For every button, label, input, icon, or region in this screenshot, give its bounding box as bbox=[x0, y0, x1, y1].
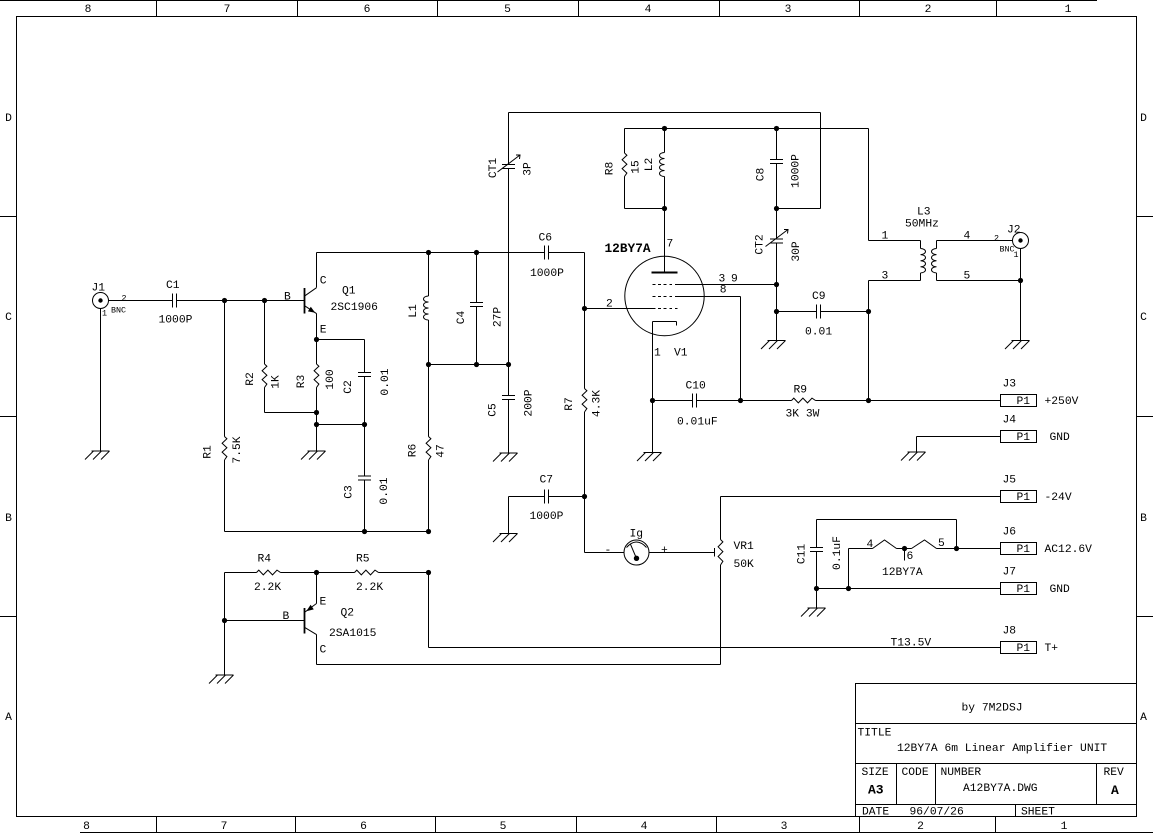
svg-text:GND: GND bbox=[1050, 432, 1071, 444]
resistor R2 1K bbox=[264, 301, 266, 365]
svg-text:1: 1 bbox=[654, 348, 661, 360]
svg-text:200P: 200P bbox=[523, 389, 535, 416]
resistor R3 100 bbox=[316, 340, 318, 365]
wire heater left to gnd rail bbox=[848, 549, 850, 589]
border outer frame bbox=[0, 0, 1097, 2]
svg-text:1: 1 bbox=[1014, 250, 1019, 260]
svg-text:P1: P1 bbox=[1017, 544, 1031, 556]
svg-text:+250V: +250V bbox=[1045, 396, 1079, 408]
svg-text:C10: C10 bbox=[686, 381, 707, 393]
svg-text:P1: P1 bbox=[1017, 492, 1031, 504]
svg-text:AC12.6V: AC12.6V bbox=[1045, 544, 1093, 556]
capacitor C11 0.1uF bbox=[816, 520, 818, 548]
svg-text:1000P: 1000P bbox=[530, 511, 564, 523]
ground under J1 bbox=[92, 450, 110, 452]
ground under C5 bbox=[500, 452, 518, 454]
svg-text:Ig: Ig bbox=[630, 529, 644, 541]
svg-text:CODE: CODE bbox=[902, 767, 929, 779]
transistor Q1 2SC1906 bbox=[304, 288, 306, 314]
svg-text:CT2: CT2 bbox=[754, 234, 766, 254]
svg-text:3K 3W: 3K 3W bbox=[786, 409, 820, 421]
capacitor C5 200P bbox=[508, 365, 510, 396]
tube control grid dashes bbox=[653, 308, 679, 310]
connector J5 -24V bbox=[1001, 491, 1037, 503]
svg-text:B: B bbox=[5, 513, 12, 525]
svg-text:C5: C5 bbox=[487, 403, 499, 417]
resistor R9 3K 3W bbox=[792, 398, 816, 403]
wire C7 to ground bbox=[508, 497, 510, 534]
connector J4 GND bbox=[917, 436, 1001, 438]
connector J1 BNC bbox=[93, 293, 109, 309]
ground under C7 bbox=[500, 533, 518, 535]
svg-text:1K: 1K bbox=[270, 375, 282, 389]
border column ticks bottom bbox=[156, 817, 158, 833]
svg-text:3: 3 bbox=[781, 821, 788, 833]
svg-text:12BY7A: 12BY7A bbox=[882, 567, 923, 579]
svg-text:4: 4 bbox=[867, 539, 874, 551]
connector J3 +250V bbox=[1001, 395, 1037, 407]
wire Q2 base bbox=[225, 620, 305, 622]
svg-text:D: D bbox=[1140, 113, 1147, 125]
svg-text:8: 8 bbox=[83, 821, 90, 833]
tube cathode bbox=[653, 321, 677, 323]
border row ticks left bbox=[0, 216, 17, 218]
wire R2 bottom to R3 node bbox=[265, 412, 317, 414]
svg-text:96/07/26: 96/07/26 bbox=[910, 807, 964, 819]
svg-text:J8: J8 bbox=[1003, 626, 1017, 638]
svg-text:47: 47 bbox=[435, 444, 447, 458]
tube V1 12BY7A envelope bbox=[625, 256, 704, 335]
wire J2 ground lead bbox=[1020, 249, 1022, 341]
svg-text:0.01: 0.01 bbox=[380, 368, 392, 395]
svg-text:27P: 27P bbox=[492, 307, 504, 328]
svg-text:5: 5 bbox=[504, 4, 511, 16]
ground under J4 bbox=[908, 451, 926, 453]
svg-text:A: A bbox=[1111, 783, 1119, 798]
svg-text:2SC1906: 2SC1906 bbox=[331, 302, 379, 314]
node R3 bottom dots bbox=[314, 410, 319, 415]
svg-text:A12BY7A.DWG: A12BY7A.DWG bbox=[963, 783, 1038, 795]
wire J1 to C1 bbox=[109, 300, 173, 302]
svg-text:R9: R9 bbox=[794, 385, 808, 397]
svg-text:0.01: 0.01 bbox=[805, 327, 832, 339]
capacitor C4 27P bbox=[476, 253, 478, 303]
resistor R5 2.2K bbox=[317, 572, 355, 574]
svg-text:NUMBER: NUMBER bbox=[941, 767, 982, 779]
svg-text:1000P: 1000P bbox=[159, 315, 193, 327]
svg-text:P1: P1 bbox=[1017, 643, 1031, 655]
capacitor C10 0.01uF bbox=[692, 394, 694, 408]
wire grid node to tube pin 2 bbox=[585, 308, 653, 310]
svg-text:2.2K: 2.2K bbox=[356, 582, 383, 594]
svg-text:5: 5 bbox=[938, 538, 945, 550]
tube screen grid pins 3 9 bbox=[653, 284, 677, 286]
svg-text:1: 1 bbox=[102, 309, 107, 319]
connector J2 BNC bbox=[1013, 233, 1029, 249]
resistor R1 7.5K bbox=[224, 301, 226, 437]
capacitor C7 1000P bbox=[509, 496, 545, 498]
svg-text:A3: A3 bbox=[868, 783, 884, 798]
resistor R4 2.2K bbox=[225, 572, 257, 574]
ground under R3 bbox=[308, 450, 326, 452]
ground under J2 bbox=[1012, 340, 1030, 342]
svg-text:C2: C2 bbox=[343, 380, 355, 394]
svg-text:V1: V1 bbox=[674, 348, 688, 360]
svg-text:A: A bbox=[5, 712, 12, 724]
node grid junction bbox=[582, 306, 587, 311]
svg-text:SHEET: SHEET bbox=[1021, 807, 1055, 819]
svg-text:TITLE: TITLE bbox=[858, 728, 892, 740]
resistor R8 15 bbox=[624, 129, 626, 154]
svg-text:-24V: -24V bbox=[1045, 492, 1072, 504]
svg-text:C8: C8 bbox=[755, 168, 767, 182]
wire meter to VR1 wiper bbox=[649, 552, 715, 554]
svg-text:R1: R1 bbox=[202, 445, 214, 459]
svg-text:0.01: 0.01 bbox=[379, 477, 391, 504]
svg-text:7.5K: 7.5K bbox=[232, 436, 244, 463]
wire gnd rail to J7 bbox=[817, 588, 1001, 590]
svg-text:C: C bbox=[320, 645, 327, 657]
svg-text:Q2: Q2 bbox=[341, 608, 355, 620]
tube plate bbox=[652, 272, 678, 274]
svg-text:2: 2 bbox=[925, 4, 932, 16]
svg-text:1: 1 bbox=[1061, 821, 1068, 833]
svg-text:6: 6 bbox=[360, 821, 367, 833]
svg-text:4.3K: 4.3K bbox=[591, 390, 603, 417]
inductor L1 bbox=[428, 253, 430, 297]
svg-text:15: 15 bbox=[630, 160, 642, 174]
svg-text:C3: C3 bbox=[343, 485, 355, 499]
svg-text:7: 7 bbox=[221, 821, 228, 833]
node base junction dots bbox=[222, 298, 227, 303]
svg-text:C6: C6 bbox=[539, 233, 553, 245]
svg-text:C4: C4 bbox=[456, 311, 468, 325]
svg-text:12BY7A 6m Linear Amplifier UNI: 12BY7A 6m Linear Amplifier UNIT bbox=[897, 743, 1107, 755]
svg-text:7: 7 bbox=[224, 4, 231, 16]
svg-text:100: 100 bbox=[325, 369, 337, 390]
svg-text:J5: J5 bbox=[1003, 475, 1017, 487]
svg-text:SIZE: SIZE bbox=[862, 767, 889, 779]
svg-text:E: E bbox=[320, 325, 327, 337]
svg-text:8: 8 bbox=[720, 285, 727, 297]
connector J8 T+ bbox=[1001, 642, 1037, 654]
ground under C10 bbox=[652, 401, 654, 453]
wire J1 ground lead bbox=[100, 309, 102, 452]
capacitor C1 1000P bbox=[172, 294, 174, 308]
trimmer capacitor CT1 3P bbox=[508, 113, 510, 165]
svg-text:0.01uF: 0.01uF bbox=[677, 417, 718, 429]
svg-text:J7: J7 bbox=[1003, 567, 1017, 579]
wire collector rail y252 bbox=[317, 252, 545, 254]
wire R8 L2 bottom loop bbox=[625, 208, 665, 210]
svg-text:1000P: 1000P bbox=[530, 268, 564, 280]
svg-text:BNC: BNC bbox=[111, 306, 126, 316]
svg-text:R7: R7 bbox=[564, 397, 576, 411]
transformer L3 50MHz bbox=[920, 241, 922, 249]
svg-text:4: 4 bbox=[641, 821, 648, 833]
svg-text:1: 1 bbox=[882, 231, 889, 243]
title block frame bbox=[856, 684, 1137, 817]
svg-text:J6: J6 bbox=[1003, 527, 1017, 539]
svg-text:Q1: Q1 bbox=[342, 286, 356, 298]
svg-text:GND: GND bbox=[1050, 584, 1071, 596]
svg-text:E: E bbox=[320, 597, 327, 609]
potentiometer VR1 50K bbox=[720, 497, 722, 540]
svg-text:DATE: DATE bbox=[862, 807, 889, 819]
svg-text:3: 3 bbox=[882, 271, 889, 283]
svg-text:5: 5 bbox=[500, 821, 507, 833]
svg-text:50MHz: 50MHz bbox=[905, 219, 939, 231]
svg-text:30P: 30P bbox=[791, 241, 803, 262]
capacitor C9 0.01 bbox=[777, 311, 817, 313]
connector J6 AC12.6V bbox=[1001, 543, 1037, 555]
connector J7 GND bbox=[1001, 583, 1037, 595]
ground under CT2 bbox=[768, 340, 786, 342]
svg-text:+: + bbox=[661, 545, 668, 557]
svg-text:J2: J2 bbox=[1007, 225, 1021, 237]
wire R9 to J3 bbox=[816, 400, 1001, 402]
svg-text:2.2K: 2.2K bbox=[254, 582, 281, 594]
svg-text:C11: C11 bbox=[796, 544, 808, 565]
tube grid pin 8 bbox=[653, 296, 677, 298]
svg-text:4: 4 bbox=[645, 4, 652, 16]
svg-text:12BY7A: 12BY7A bbox=[605, 241, 651, 256]
svg-text:5: 5 bbox=[964, 271, 971, 283]
svg-text:B: B bbox=[1140, 513, 1147, 525]
svg-text:50K: 50K bbox=[734, 559, 755, 571]
svg-text:C: C bbox=[5, 312, 12, 324]
svg-text:7: 7 bbox=[667, 239, 674, 251]
wire heater top link bbox=[817, 519, 957, 521]
svg-text:C: C bbox=[320, 276, 327, 288]
svg-text:R4: R4 bbox=[258, 554, 272, 566]
svg-text:4: 4 bbox=[964, 231, 971, 243]
svg-text:C: C bbox=[1140, 312, 1147, 324]
svg-text:B: B bbox=[284, 292, 291, 304]
svg-text:1000P: 1000P bbox=[790, 154, 802, 188]
capacitor C3 0.01 bbox=[364, 425, 366, 477]
capacitor C2 0.01 bbox=[358, 372, 371, 374]
heater 12BY7A pins 4 5 6 bbox=[849, 548, 873, 550]
border column ticks top bbox=[156, 0, 158, 17]
svg-text:0.1uF: 0.1uF bbox=[832, 536, 844, 570]
svg-text:8: 8 bbox=[85, 4, 92, 16]
svg-text:T13.5V: T13.5V bbox=[891, 638, 932, 650]
svg-text:3: 3 bbox=[785, 4, 792, 16]
svg-text:1: 1 bbox=[1065, 4, 1072, 16]
svg-text:6: 6 bbox=[364, 4, 371, 16]
trimmer capacitor CT2 30P bbox=[770, 238, 783, 240]
svg-text:C9: C9 bbox=[812, 291, 826, 303]
svg-text:A: A bbox=[1140, 712, 1147, 724]
svg-text:L3: L3 bbox=[917, 207, 931, 219]
svg-text:2SA1015: 2SA1015 bbox=[329, 628, 377, 640]
capacitor C6 1000P bbox=[544, 246, 546, 260]
meter Ig bbox=[585, 552, 625, 554]
ground under Q2 base resistor bbox=[216, 674, 234, 676]
ground under C11 bbox=[816, 589, 818, 609]
wire VR1 top to J5 bbox=[721, 496, 1001, 498]
resistor R6 47 bbox=[428, 365, 430, 437]
svg-text:BNC: BNC bbox=[1000, 245, 1015, 255]
svg-text:C7: C7 bbox=[540, 475, 554, 487]
svg-text:9: 9 bbox=[731, 274, 738, 286]
wire C6 to grid node bbox=[584, 253, 586, 309]
svg-text:VR1: VR1 bbox=[734, 541, 755, 553]
wire cathode row y400 bbox=[653, 400, 693, 402]
wire feedback top bbox=[509, 112, 821, 114]
capacitor C8 1000P bbox=[776, 129, 778, 160]
svg-text:D: D bbox=[5, 113, 12, 125]
wire L3 secondary to J2 bbox=[937, 240, 1013, 242]
svg-text:R2: R2 bbox=[245, 372, 257, 386]
wire R6 bottom to J8 bbox=[428, 573, 430, 648]
svg-text:6: 6 bbox=[907, 551, 914, 563]
svg-text:J4: J4 bbox=[1003, 415, 1017, 427]
wire L3 primary feed bbox=[868, 129, 870, 241]
wire tank rail y364 bbox=[429, 364, 509, 366]
svg-text:P1: P1 bbox=[1017, 584, 1031, 596]
wire C2 bottom bbox=[364, 377, 366, 425]
resistor R7 4.3K bbox=[584, 309, 586, 389]
svg-text:R6: R6 bbox=[407, 444, 419, 458]
wire plate rail y128 bbox=[625, 128, 869, 130]
transistor Q2 2SA1015 bbox=[316, 573, 318, 604]
wire emitter to C2 bbox=[317, 339, 365, 341]
inductor L2 bbox=[664, 129, 666, 153]
svg-text:CT1: CT1 bbox=[488, 158, 500, 179]
wire Q2 collector to VR1 bottom bbox=[317, 664, 721, 666]
svg-text:R8: R8 bbox=[604, 162, 616, 176]
svg-text:B: B bbox=[283, 611, 290, 623]
border row ticks right bbox=[1137, 216, 1153, 218]
wire L3 pin3 to +250V node bbox=[869, 280, 921, 282]
svg-text:2: 2 bbox=[122, 294, 127, 304]
svg-text:T+: T+ bbox=[1045, 643, 1059, 655]
node Q1 emitter bbox=[314, 337, 319, 342]
wire R3 node to C2 node bbox=[317, 424, 365, 426]
svg-text:L2: L2 bbox=[644, 158, 656, 172]
wire bottom rail R1-C3-R6 bbox=[225, 531, 429, 533]
svg-text:J1: J1 bbox=[92, 283, 106, 295]
svg-text:REV: REV bbox=[1104, 767, 1125, 779]
svg-text:L1: L1 bbox=[408, 304, 420, 318]
svg-text:3P: 3P bbox=[522, 162, 534, 176]
svg-text:2: 2 bbox=[606, 299, 613, 311]
svg-text:by 7M2DSJ: by 7M2DSJ bbox=[962, 703, 1023, 715]
svg-text:J3: J3 bbox=[1003, 379, 1017, 391]
svg-text:P1: P1 bbox=[1017, 396, 1031, 408]
svg-text:C1: C1 bbox=[166, 280, 180, 292]
wire C1 to Q1 base bbox=[177, 300, 305, 302]
svg-text:R3: R3 bbox=[296, 375, 308, 389]
svg-text:R5: R5 bbox=[356, 554, 370, 566]
svg-text:2: 2 bbox=[994, 234, 999, 244]
svg-text:-: - bbox=[605, 545, 612, 557]
svg-text:2: 2 bbox=[917, 821, 924, 833]
wire R4 left to ground bbox=[224, 573, 226, 676]
svg-text:P1: P1 bbox=[1017, 432, 1031, 444]
